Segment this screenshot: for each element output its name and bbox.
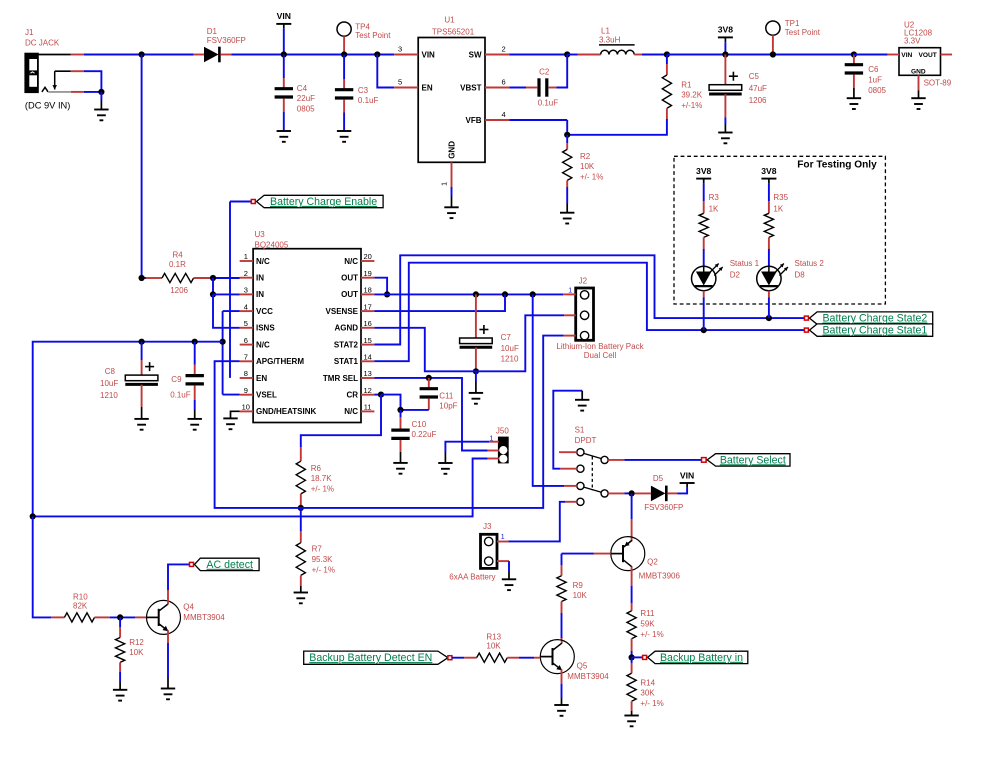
net label flag Backup Battery Detect EN: [304, 651, 464, 664]
svg-text:R10: R10: [73, 593, 88, 602]
svg-text:VSEL: VSEL: [256, 391, 277, 400]
svg-text:IN: IN: [256, 274, 264, 283]
capacitor C11: [420, 389, 438, 397]
wire D5 to VIN: [678, 488, 688, 494]
svg-text:R13: R13: [486, 633, 501, 642]
junction TP1: [770, 51, 776, 57]
label J1 refdes: [25, 28, 60, 47]
svg-text:R11: R11: [640, 609, 655, 618]
net label flag Battery Charge State1: [804, 324, 932, 337]
capacitor C2: [539, 78, 547, 96]
svg-text:N/C: N/C: [344, 257, 358, 266]
svg-text:MMBT3906: MMBT3906: [639, 571, 681, 580]
label J3: [483, 522, 505, 541]
junction VCC node: [220, 339, 226, 345]
transistor Q4 MMBT3904: [147, 600, 181, 634]
IC U2 LC1208 regulator: [899, 48, 941, 76]
junction L1/R1: [664, 51, 670, 57]
op-amp U1 TPS565201 regulator: [418, 38, 485, 163]
power flag 3V8: [718, 25, 734, 55]
svg-text:8: 8: [244, 369, 248, 378]
label R6: [311, 464, 334, 494]
wire CR to C11 bottom: [381, 395, 401, 410]
IC U3 BQ24005 battery charger: [253, 249, 361, 423]
wire AGND stem: [475, 371, 477, 393]
wire S1 throw2 to ground: [553, 391, 582, 469]
junction STAT1/D2: [701, 327, 707, 333]
wire C6 top: [853, 55, 855, 65]
pin 4 U1 VFB: [485, 110, 510, 120]
svg-text:19: 19: [364, 269, 372, 278]
svg-text:BQ24005: BQ24005: [255, 240, 289, 249]
pin 8 U3: [240, 369, 253, 378]
svg-text:C8: C8: [105, 367, 116, 376]
svg-text:2: 2: [244, 269, 248, 278]
junction VCC low rail: [30, 513, 36, 519]
svg-text:VBST: VBST: [460, 83, 481, 92]
svg-text:VIN: VIN: [277, 11, 291, 21]
svg-text:1: 1: [244, 252, 248, 261]
resistor R1: [662, 75, 671, 108]
junction VFB/R2: [564, 132, 570, 138]
junction R6/APG line: [298, 505, 304, 511]
wire VCC: [223, 310, 240, 312]
wire C4 top: [283, 55, 285, 89]
svg-text:1: 1: [501, 534, 505, 541]
pin 2 J2: [564, 314, 576, 316]
svg-text:N/C: N/C: [256, 340, 270, 349]
svg-text:20: 20: [364, 252, 372, 261]
wire C10 bottom: [400, 440, 402, 463]
power flag 3V8 (R3): [696, 166, 712, 213]
wire D5 node to Q2: [631, 493, 633, 541]
svg-text:OUT: OUT: [341, 290, 358, 299]
label U3 refdes: [255, 230, 289, 249]
svg-text:C3: C3: [358, 86, 369, 95]
pin U2 GND: [918, 75, 920, 98]
wire R14 top: [631, 657, 633, 673]
svg-text:Battery Select: Battery Select: [720, 454, 786, 466]
pin S1 pole1: [608, 459, 624, 461]
label R4: [169, 250, 189, 295]
pin 1 U1 GND: [440, 162, 452, 187]
wire R10 to Q4: [110, 616, 135, 618]
wire EN branch: [377, 55, 394, 88]
label R3: [709, 193, 720, 213]
wire Q4 base stub: [135, 616, 147, 618]
resistor R14: [627, 673, 636, 701]
svg-text:VIN: VIN: [422, 50, 436, 59]
wire L1 to 3V8 rail: [642, 54, 667, 56]
svg-text:GND/HEATSINK: GND/HEATSINK: [256, 407, 317, 416]
wire C11 top: [428, 378, 430, 389]
capacitor C5 polarized: [709, 72, 742, 94]
ground R12: [113, 690, 127, 701]
wire R1 bottom: [567, 108, 667, 135]
pin S1 throw3: [564, 485, 577, 487]
svg-text:APG/THERM: APG/THERM: [256, 357, 304, 366]
wire Q2 base: [562, 553, 611, 555]
svg-text:1K: 1K: [773, 205, 783, 214]
svg-text:9: 9: [244, 386, 248, 395]
wire S1 pole2 to D5: [624, 492, 631, 494]
junction J1 sleeve: [98, 89, 104, 95]
svg-text:10K: 10K: [486, 642, 501, 651]
wire C10 top: [400, 410, 402, 430]
resistor R6: [296, 461, 305, 494]
svg-text:0.1R: 0.1R: [169, 260, 186, 269]
label R2: [580, 152, 603, 181]
svg-text:D1: D1: [207, 27, 218, 36]
svg-text:AGND: AGND: [334, 324, 358, 333]
wire R6 top: [300, 447, 302, 461]
svg-text:6: 6: [244, 336, 248, 345]
wire D2 to STAT1: [703, 291, 705, 330]
svg-text:For Testing Only: For Testing Only: [797, 159, 877, 170]
ground U1: [444, 207, 458, 218]
wire Battery Charge Enable to EN: [229, 202, 231, 378]
svg-text:1uF: 1uF: [868, 75, 882, 84]
ground Q5: [554, 705, 568, 716]
svg-text:3V8: 3V8: [761, 166, 777, 176]
pin 1 J3: [497, 541, 508, 543]
junction TMRSEL/C11: [426, 375, 432, 381]
svg-text:IN: IN: [256, 290, 264, 299]
junction STAT2/D8: [766, 315, 772, 321]
junction IN pin3: [210, 291, 216, 297]
svg-text:17: 17: [364, 302, 372, 311]
wire C7 bottom: [475, 348, 477, 372]
junction TP4/C3: [341, 51, 347, 57]
wire R6 bottom: [300, 494, 302, 508]
wire C4 bottom: [283, 98, 285, 131]
svg-text:Backup Battery Detect EN: Backup Battery Detect EN: [309, 652, 432, 664]
label J50: [489, 427, 509, 443]
wire Q4 collector to AC detect: [168, 564, 190, 604]
svg-text:95.3K: 95.3K: [312, 555, 334, 564]
label TP1: [785, 19, 821, 37]
wire VSEL: [223, 394, 240, 396]
wire VSENSE: [374, 294, 505, 311]
svg-text:C6: C6: [868, 65, 879, 74]
resistor R12: [116, 638, 125, 663]
pin 12 U3: [361, 386, 374, 395]
label Q2: [639, 557, 681, 580]
capacitor C3: [335, 90, 353, 98]
svg-text:MMBT3904: MMBT3904: [567, 672, 609, 681]
svg-text:Battery Charge State2: Battery Charge State2: [822, 313, 927, 325]
svg-text:TPS565201: TPS565201: [432, 27, 475, 36]
svg-text:R4: R4: [173, 250, 184, 259]
pin 9 U3: [240, 386, 253, 395]
svg-text:EN: EN: [256, 374, 267, 383]
wire R1 top: [666, 55, 668, 76]
svg-text:STAT1: STAT1: [334, 357, 359, 366]
svg-text:7: 7: [244, 353, 248, 362]
wire main input rail down: [141, 55, 143, 279]
svg-text:(DC 9V IN): (DC 9V IN): [25, 101, 70, 111]
svg-text:Battery Charge State1: Battery Charge State1: [822, 325, 927, 337]
svg-text:DC JACK: DC JACK: [25, 39, 60, 48]
svg-text:22uF: 22uF: [297, 94, 315, 103]
wire VCC-VSEL tie: [222, 311, 224, 395]
label R14: [640, 678, 663, 708]
svg-text:S1: S1: [575, 426, 585, 435]
wire IN pin3: [213, 293, 240, 295]
svg-text:TP4: TP4: [355, 23, 370, 32]
svg-text:10K: 10K: [580, 162, 595, 171]
wire R4 to IN: [210, 277, 240, 279]
wire SW node to L1: [567, 54, 577, 56]
wire STAT2: [374, 255, 804, 344]
wire R13 to Q5 base: [519, 657, 540, 659]
wire C5 top: [724, 55, 726, 85]
svg-text:TMR SEL: TMR SEL: [323, 374, 358, 383]
wire VBST to C2: [510, 87, 538, 89]
pin 1 U3: [240, 252, 253, 261]
wire R12 bottom: [119, 662, 121, 689]
net label flag Backup Battery in: [632, 651, 748, 664]
junction R10/R12: [117, 614, 123, 620]
resistor R9: [557, 576, 566, 602]
wire C11 bottom: [401, 398, 429, 410]
svg-text:SW: SW: [469, 50, 482, 59]
connector J50: [498, 437, 509, 464]
test point TP1: [766, 21, 780, 55]
pin S1 pole2: [608, 492, 624, 494]
capacitor C4: [275, 89, 293, 97]
label L1: [599, 26, 635, 45]
svg-text:1206: 1206: [749, 96, 767, 105]
wire R3 to LED: [703, 237, 705, 266]
svg-text:VIN: VIN: [901, 52, 912, 59]
svg-text:AC detect: AC detect: [206, 559, 253, 571]
svg-text:C11: C11: [439, 391, 454, 400]
wire STAT1: [374, 263, 804, 362]
label J2: [568, 276, 587, 294]
svg-text:C5: C5: [749, 72, 760, 81]
wire C7 top: [475, 294, 477, 338]
ground S1: [575, 400, 589, 411]
wire rail to U2: [854, 54, 888, 56]
svg-text:Dual Cell: Dual Cell: [584, 351, 617, 360]
svg-text:39.2K: 39.2K: [681, 91, 703, 100]
wire SW to node: [510, 54, 568, 56]
label R12: [129, 638, 144, 657]
svg-text:R14: R14: [640, 678, 655, 687]
svg-text:82K: 82K: [73, 602, 88, 611]
svg-text:Backup Battery in: Backup Battery in: [660, 652, 743, 664]
net label flag Battery Charge State2: [804, 312, 932, 325]
label C7: [501, 333, 519, 364]
transistor Q5 MMBT3904: [540, 640, 574, 674]
junction IN pin2: [210, 275, 216, 281]
junction C7/AGND: [473, 368, 479, 374]
svg-text:4: 4: [244, 302, 248, 311]
capacitor C8 polarized: [125, 362, 158, 384]
svg-text:6: 6: [502, 78, 506, 87]
svg-text:10pF: 10pF: [439, 401, 457, 410]
svg-text:VFB: VFB: [466, 116, 482, 125]
capacitor C10: [391, 430, 409, 438]
svg-text:N/C: N/C: [344, 407, 358, 416]
wire Q2 collector: [631, 567, 633, 611]
label C8: [100, 367, 118, 400]
svg-text:VOUT: VOUT: [919, 52, 937, 59]
svg-text:Q5: Q5: [577, 661, 588, 670]
svg-text:47uF: 47uF: [749, 84, 767, 93]
svg-text:Status 1: Status 1: [730, 259, 760, 268]
resistor R4: [146, 273, 210, 282]
capacitor C9: [186, 376, 204, 384]
pin 3 U3: [240, 286, 253, 295]
svg-text:Q4: Q4: [183, 603, 194, 612]
svg-text:3V8: 3V8: [718, 25, 734, 35]
ground AGND: [469, 393, 483, 404]
wire GND/HEATSINK: [231, 411, 240, 418]
wire C5 bottom: [724, 94, 726, 132]
junction J1 rail: [139, 51, 145, 57]
svg-text:J3: J3: [483, 522, 492, 531]
pin 6 U3: [240, 336, 253, 345]
svg-text:0.1uF: 0.1uF: [538, 99, 559, 108]
pin 1 J2: [563, 293, 575, 295]
svg-text:3.3uH: 3.3uH: [599, 36, 621, 45]
pin S1 throw4: [565, 501, 577, 503]
wire J1 sleeve to ground: [84, 91, 102, 93]
svg-text:C2: C2: [539, 68, 550, 77]
svg-text:11: 11: [364, 403, 372, 412]
ground R7: [294, 593, 308, 604]
junction VIN/C4: [281, 51, 287, 57]
svg-text:VSENSE: VSENSE: [326, 307, 359, 316]
svg-text:D8: D8: [795, 270, 806, 279]
svg-text:18: 18: [364, 286, 372, 295]
svg-text:16: 16: [364, 319, 372, 328]
svg-text:59K: 59K: [640, 620, 655, 629]
pin 18 U3: [361, 286, 374, 295]
wire APG/THERM net: [215, 336, 564, 508]
svg-text:15: 15: [364, 336, 372, 345]
label C6: [868, 65, 886, 95]
svg-text:+/- 1%: +/- 1%: [311, 485, 334, 494]
svg-text:R1: R1: [681, 80, 692, 89]
wire OUT pin19: [374, 278, 387, 295]
pin 6 U1 VBST: [485, 78, 510, 88]
wire D1 to VIN rail: [231, 54, 394, 56]
label R9: [573, 581, 588, 600]
svg-text:4: 4: [502, 110, 506, 119]
ground J50: [438, 463, 452, 474]
svg-text:Test Point: Test Point: [785, 28, 821, 37]
svg-text:ISNS: ISNS: [256, 324, 275, 333]
ground C3: [337, 131, 351, 142]
net label flag AC detect: [190, 558, 260, 571]
ground U2: [911, 98, 925, 109]
junction C9: [192, 339, 198, 345]
wire C9 top: [194, 342, 196, 376]
wire VCC rail to R10: [33, 516, 51, 617]
label D8: [795, 259, 825, 279]
ground C8: [134, 419, 148, 430]
junction OUT/battery switch: [530, 291, 536, 297]
ground C10: [393, 463, 407, 474]
pin 3 J50: [488, 458, 499, 460]
resistor R3: [699, 213, 708, 237]
pin 10 U3: [240, 403, 253, 412]
junction D5/Q2: [629, 490, 635, 496]
svg-text:0.1uF: 0.1uF: [170, 390, 191, 399]
pin 2 J50: [488, 450, 499, 452]
svg-text:+/- 1%: +/- 1%: [640, 630, 663, 639]
LED D8: [757, 264, 788, 291]
resistor R10: [51, 613, 110, 622]
pin 3 U1 VIN: [394, 45, 418, 55]
junction CR: [378, 392, 384, 398]
wire TMR SEL: [374, 378, 487, 451]
wire S1 throw4 to J3: [508, 502, 565, 542]
svg-text:10: 10: [242, 403, 250, 412]
svg-text:SOT-89: SOT-89: [924, 79, 952, 88]
svg-text:5: 5: [244, 319, 248, 328]
connector J3 backup battery: [481, 534, 498, 568]
label Q5: [567, 661, 609, 681]
svg-text:0.22uF: 0.22uF: [412, 430, 437, 439]
transistor Q2 MMBT3906: [611, 537, 645, 571]
label For Testing Only: [797, 159, 877, 170]
pin U2 VIN: [888, 54, 899, 56]
svg-text:STAT2: STAT2: [334, 340, 359, 349]
svg-text:D5: D5: [653, 474, 664, 483]
label DC 9V IN: [25, 101, 70, 111]
svg-text:10K: 10K: [573, 591, 588, 600]
svg-text:D2: D2: [730, 270, 741, 279]
inductor L1: [578, 50, 643, 54]
svg-text:GND: GND: [911, 69, 926, 76]
wire ISNS: [213, 294, 240, 327]
ground C4: [277, 131, 291, 142]
resistor R35: [764, 213, 773, 237]
ground R14: [624, 716, 638, 727]
capacitor C7 polarized: [460, 325, 493, 347]
LED D2: [692, 264, 723, 291]
label R7: [312, 545, 335, 575]
wire C3 top: [343, 55, 345, 90]
label C10: [412, 420, 437, 439]
wire C8 bottom: [141, 385, 143, 419]
wire Q5 emitter: [561, 670, 563, 706]
pin 1 J50: [489, 441, 499, 443]
svg-text:3.3V: 3.3V: [904, 36, 921, 45]
wire R14 bottom: [631, 701, 633, 715]
pin 2 U1 SW: [485, 45, 510, 55]
svg-text:J2: J2: [579, 276, 588, 285]
pin 17 U3: [361, 302, 374, 311]
label R35: [773, 193, 788, 213]
junction EN branch: [374, 51, 380, 57]
connector J2 battery pack: [576, 288, 594, 340]
svg-text:1210: 1210: [501, 355, 519, 364]
svg-text:R3: R3: [709, 193, 720, 202]
wire OUT to S1 throw3: [533, 294, 564, 486]
label C2: [538, 68, 559, 108]
svg-text:Battery Charge Enable: Battery Charge Enable: [270, 196, 377, 208]
wire U1 GND: [451, 187, 453, 197]
wire bypass rail: [33, 342, 223, 517]
wire R11 bottom: [631, 639, 633, 658]
svg-text:1210: 1210: [100, 391, 118, 400]
svg-text:Status 2: Status 2: [795, 259, 825, 268]
